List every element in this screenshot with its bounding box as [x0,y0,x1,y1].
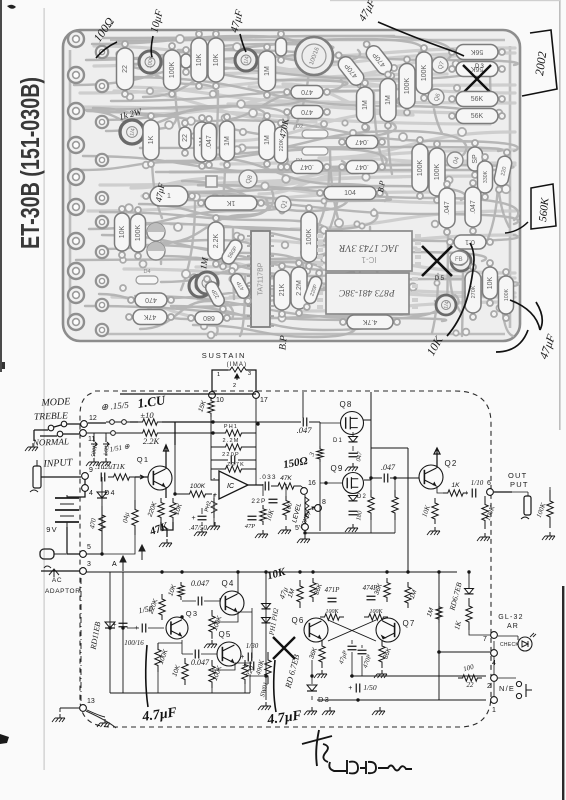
diode PH2 [262,618,271,623]
pcb pot [436,295,456,315]
svg-text:0.047: 0.047 [191,579,210,588]
resistor resistor 33 top [317,446,323,462]
node 1 [491,697,498,714]
svg-text:100K: 100K [306,229,313,246]
annotation pointer 47uF [240,34,246,52]
svg-text:3: 3 [248,371,251,377]
pcb diode D2 [296,124,328,138]
ground [314,670,327,678]
node 6 [487,480,494,495]
ground [255,530,268,538]
scan fold line left [44,8,45,770]
resistor resistor 1K out [443,482,468,496]
pcb ring trace [70,40,510,334]
pcb pot [451,251,471,271]
ground [97,719,110,727]
wire Q1 emitter [165,487,167,498]
junction dots [100,420,470,701]
svg-text:2.2K: 2.2K [143,436,161,446]
capacitor cap 220P [231,456,235,465]
pcb traces [74,36,519,337]
svg-text:100K: 100K [421,65,428,82]
svg-text:100/16: 100/16 [124,639,144,647]
pcb transistor Q4 pad [447,152,463,168]
wire rail 676 [350,675,486,677]
jumper circle 2 [118,420,130,425]
capacitor cap .033 [265,482,269,491]
svg-text:D1: D1 [333,438,343,444]
cap treble2 [103,437,109,456]
resistor resistor 220 q5 [242,660,256,684]
pcb small oval FB [450,251,468,265]
pcb transistor pair [147,223,165,260]
pcb resistor 10K [191,31,207,89]
ground [207,522,220,530]
ground [322,707,335,715]
svg-text:470: 470 [301,88,313,95]
svg-text:220K: 220K [279,138,285,151]
svg-text:21K: 21K [279,283,286,296]
ground [297,535,310,543]
photoresistor PH2 [204,498,217,518]
wire row11 right [162,432,213,434]
transistor Q5 [217,642,241,666]
wire block out [235,608,265,693]
svg-text:2.2K: 2.2K [213,233,220,248]
jumper circle 1 [106,420,118,425]
svg-text:1: 1 [217,372,220,378]
capacitor cap 474P q7 [367,596,376,600]
resistor resistor 1M q7 [405,582,419,608]
capacitor cap 47P [248,516,257,520]
wire q6 top [300,572,313,617]
svg-text:2.2M: 2.2M [222,438,239,444]
potentiometer LEVEL [291,495,316,531]
pcb pot [189,275,211,297]
capacitor cap 0.047 q3 [198,597,202,606]
pcb IC2 P873 [317,273,418,314]
resistor resistor 36K q6e [308,640,325,668]
svg-text:1/50: 1/50 [363,683,377,692]
wire q3 emitter [181,638,183,643]
svg-text:470: 470 [145,296,157,303]
wire right col [468,572,470,588]
resistor resistor 36K q7 [373,578,390,602]
resistor resistor 220K q1 [146,498,164,522]
ground [304,707,317,715]
svg-text:Q3: Q3 [186,609,198,618]
potentiometer SUSTAIN 1M [217,367,251,389]
svg-text:47K: 47K [280,475,292,482]
svg-text:IC-1: IC-1 [361,255,377,264]
wire q9 to cap [364,478,382,480]
resistor resistor 10K q5 [171,658,188,685]
svg-text:100K: 100K [417,160,424,177]
capacitor cap 180 q9 [349,511,358,515]
pcb resistor 56K [449,45,505,60]
wire q4 emitter [212,612,238,639]
svg-text:NORMAL: NORMAL [32,436,69,447]
svg-text:PUT: PUT [510,480,529,489]
node 5 [80,544,91,557]
pcb resistor 330K [478,154,493,200]
svg-text:471P: 471P [325,586,341,594]
wire row 652 [439,651,490,653]
svg-text:D4: D4 [104,490,115,497]
node 8 [315,499,326,511]
node 16 [301,480,316,494]
svg-text:.047: .047 [444,201,451,215]
resistor resistor 100K q7b [364,614,388,620]
wire main rail 3 [86,571,457,573]
pcb IC1 uPC4558 [317,231,421,271]
pcb resistor 100K [499,269,514,321]
capacitor cap 047 q8 [349,453,358,457]
svg-text:D2: D2 [357,494,367,500]
transistor Q4 [220,591,244,615]
pcb transistor Q8 pad [239,170,257,188]
wire q5 emitter [212,663,235,693]
wire adaptor [41,570,80,572]
node 9 [82,467,93,479]
pcb IC TA7117P [247,231,274,327]
resistor resistor 100K opamp in [183,483,212,497]
capacitor cap 47KP [348,646,357,650]
resistor resistor 1K led [466,598,472,630]
wire [488,427,490,489]
node 4 [491,650,498,667]
pcb resistor 220K [275,120,288,170]
handwritten scrawl chain [329,760,412,774]
resistor resistor 27K [211,466,256,472]
resistor resistor q2 base bias [392,490,398,520]
resistor resistor 100K q3e [155,643,170,672]
wire cross coupling [328,620,376,641]
pcb resistor 470P [359,37,399,82]
annotation 2002 bracket [522,30,557,96]
svg-text:47P: 47P [245,523,256,530]
svg-text:270K: 270K [471,285,477,298]
svg-text:ADAPTOR: ADAPTOR [45,588,81,595]
capacitor cap .47/50 [192,515,207,522]
pcb resistor 100K [301,205,317,269]
resistor resistor 100 out [458,675,482,681]
svg-text:AC: AC [52,577,62,584]
resistor resistor 36K q6 [310,578,324,602]
svg-text:P873 481-38C: P873 481-38C [339,287,396,297]
annotation pointer 47uF bottom right [496,300,542,352]
wire gates col [319,462,321,531]
svg-text:104: 104 [344,190,356,197]
svg-text:.047: .047 [297,425,313,435]
capacitor cap 1/10 [464,489,476,498]
pcb resistor SP [468,140,483,178]
svg-text:1M: 1M [385,95,392,105]
resistor resistor 470 [99,506,105,540]
wire led row [469,630,490,635]
wire normal row [40,434,79,436]
node 2 [487,675,497,690]
svg-text:+: + [242,663,246,670]
svg-text:2: 2 [233,383,236,389]
svg-text:1/10: 1/10 [471,479,484,487]
capacitor cap 100/16 [113,622,128,629]
schematic dashed border [80,391,491,727]
wire q9 cap gnd [352,517,354,522]
resistor resistor PH1 [211,430,256,436]
svg-text:D3: D3 [475,64,485,70]
ground [52,714,65,722]
pcb resistor 680 [188,312,230,325]
pcb resistor 1M [220,114,235,168]
wire gnd13 right [87,710,105,717]
capacitor cap 1/30 [240,653,252,662]
svg-text:Q5: Q5 [218,630,231,639]
svg-text:Ζ27K: Ζ27K [227,462,245,468]
resistor resistor 100 [283,496,289,520]
svg-text:D4: D4 [143,269,150,275]
svg-text:5: 5 [87,544,91,551]
wire cap d3 [357,676,359,700]
pcb pot [196,272,218,294]
svg-text:Q9: Q9 [330,464,343,473]
resistor resistor 1M col439 [426,603,442,623]
svg-text:330K: 330K [483,170,489,183]
svg-text:+: + [113,622,117,629]
wire q7 top [387,572,408,619]
pcb resistor .047 [439,181,455,235]
pcb resistor 22 [117,41,134,97]
svg-text:470: 470 [301,108,313,115]
ground [278,526,291,534]
svg-text:56K: 56K [471,113,484,120]
ground [98,458,111,466]
pcb resistor 56K [449,62,505,77]
svg-text:Q4: Q4 [221,579,234,588]
resistor resistor 10K q3 [167,582,184,600]
svg-text:Q8: Q8 [339,400,352,409]
ground [477,533,490,541]
svg-text:+: + [348,685,352,692]
wire 047 col [102,477,135,554]
svg-text:1K: 1K [452,482,461,489]
svg-text:13: 13 [87,698,95,705]
pcb resistor 100K [412,137,428,199]
diode RD11EB [105,622,115,628]
svg-text:+: + [464,490,468,497]
svg-text:0.047: 0.047 [191,658,210,667]
svg-text:Q2: Q2 [444,459,457,468]
footswitch NE [516,681,532,698]
svg-text:D2: D2 [296,124,303,130]
resistor resistor 10K below op [260,505,266,525]
wire opamp out [248,484,263,486]
pcb component [276,31,287,63]
pcb resistor 10K [115,206,130,258]
wire node17 down [255,398,257,485]
wire emitter r [434,493,436,498]
svg-text:7: 7 [483,636,487,643]
pcb resistor 2.2M [291,260,307,316]
svg-text:.047: .047 [355,138,369,145]
svg-text:220P: 220P [222,452,240,458]
capacitor cap 225 [242,662,254,671]
pcb resistor 1K [143,113,159,167]
svg-text:D3: D3 [318,695,330,704]
svg-text:.1u2uT1K: .1u2uT1K [95,462,126,471]
pcb resistor .047 [284,161,330,174]
wire q1 emitter join [161,522,173,537]
wire to battery [67,491,85,497]
node 17 [253,392,268,404]
junction dot q2 base [393,476,396,479]
pcb resistor 47P [225,266,254,307]
svg-text:.033: .033 [259,474,276,481]
diode PH1 [262,604,271,609]
pcb component [181,47,191,75]
svg-text:17: 17 [260,397,268,404]
svg-text:100K: 100K [169,62,176,79]
pcb resistor 220 [492,148,515,194]
svg-text:1: 1 [167,193,171,200]
svg-text:PH1: PH1 [224,424,238,430]
svg-text:1M: 1M [224,136,231,146]
crossed-out D5 on pcb [422,246,452,276]
svg-text:9V: 9V [46,525,58,534]
wire treble row [34,424,81,430]
svg-text:Q6: Q6 [291,616,304,625]
wire q3 to q4 [182,598,220,601]
scan mark left edge [0,362,5,369]
pcb resistor 10K [483,260,498,306]
transistor Q2 [419,465,443,489]
svg-text:GL-32: GL-32 [498,614,523,621]
pcb pads scattered [116,35,510,339]
capacitor cap 471P q6 [328,598,337,602]
wire mid column [265,572,267,700]
svg-text:A: A [112,561,117,568]
pcb resistor .047 [202,116,217,168]
svg-text:1M: 1M [264,66,271,76]
wire node5 up [86,477,102,554]
annotation pointer 47uF top [378,22,464,56]
wire from sw12 [88,422,138,423]
wire q1 to opamp [175,445,183,494]
wire 10k q5 [184,654,186,693]
pcb diode D4 [136,269,158,284]
svg-text:4: 4 [89,490,93,497]
wire 2.2k to q1 [162,422,213,445]
svg-text:1M: 1M [198,256,210,270]
wire to opamp minus [211,417,219,480]
pcb resistor 4.7K [340,315,400,329]
wire q3 to q5 [182,640,217,654]
svg-text:Q1: Q1 [137,455,149,464]
wire dash-dot battery minus [80,578,82,702]
pcb pot [120,120,144,144]
diode D4 [97,492,107,498]
transistor Q6 [304,618,328,642]
svg-text:MODE: MODE [40,396,70,409]
pcb resistor 2.2K [208,215,224,267]
ground [372,707,385,715]
battery 9V [55,495,79,527]
pcb resistor 1M [259,44,276,98]
pcb pad column 2 [96,46,108,336]
pcb transistor Q7 pad [432,57,448,73]
svg-text:100K: 100K [504,288,510,301]
svg-text:22: 22 [182,134,189,142]
pcb resistor 104 [317,187,383,200]
pcb transistor Q6 pad [428,89,444,105]
scan edge right dark [562,586,564,800]
resistor resistor 47K out [271,475,301,489]
scan edge top faint [330,0,560,1]
wire jack [512,487,550,496]
op-amp IC [213,471,248,499]
pcb resistor 0.1 [447,235,493,249]
wire bias resistors [371,478,395,533]
capacitor cap 22P [269,499,278,503]
wire opamp in [202,493,219,495]
resistor resistor 100K q5e [209,660,224,688]
dc jack [40,549,66,559]
annotation pointer 10K [447,243,474,336]
node 7 [483,632,497,643]
ground [204,640,217,648]
pcb resistor 22 [179,120,191,156]
capacitor input cap [101,473,105,482]
svg-text:12: 12 [89,415,97,422]
pcb electrolytic 100/16 large [295,37,333,75]
resistor resistor 100K jack [547,490,553,528]
capacitor cap .047 top [303,418,307,427]
svg-text:5': 5' [295,525,300,532]
pcb resistor 100K [416,45,432,101]
wire node7 to led [498,636,518,640]
wire top supply rail [120,393,256,395]
ground [542,532,555,540]
diode D2 q9 [349,496,358,501]
svg-text:1K: 1K [148,135,155,144]
svg-text:4.7K: 4.7K [362,318,377,325]
svg-text:N/E: N/E [499,684,515,693]
node 3 [80,561,91,574]
wire 047 top row [213,392,320,446]
capacitor cap 1/50 [134,624,146,633]
svg-text:B.P: B.P [277,335,289,351]
pcb resistor 220P [300,268,326,312]
wire q8 d1 [352,432,354,451]
svg-text:1M: 1M [362,100,369,110]
pcb resistor 10K [208,31,224,89]
wire 470 down [101,540,103,554]
pcb resistor .047 [465,180,481,234]
diode D3 [307,685,317,691]
ground [159,539,172,547]
svg-text:56K: 56K [471,96,484,103]
ground [345,463,358,471]
svg-text:CHECK: CHECK [500,642,519,648]
diode RD6.7EB zener [465,589,474,594]
switch contact treble2 [61,421,67,427]
switch contact treble [48,425,54,431]
diode D1 q8 [349,437,358,442]
transistor Q7 [376,618,400,642]
wire drops out node [263,484,286,496]
svg-text:10K: 10K [119,225,126,238]
svg-text:100K: 100K [369,609,383,615]
